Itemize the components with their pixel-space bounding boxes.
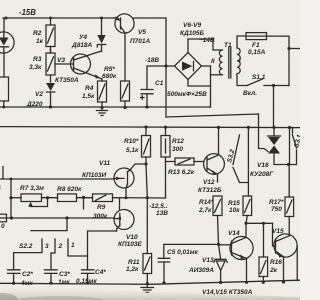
- svg-text:С3*: С3*: [59, 271, 70, 278]
- node R9 wire V11 source: [125, 196, 128, 199]
- svg-text:R2: R2: [33, 30, 42, 37]
- svg-text:V15: V15: [272, 228, 284, 235]
- wire V3 base tap: [55, 63, 73, 65]
- wire x11 column: [10, 179, 12, 218]
- svg-text:R3: R3: [33, 56, 42, 63]
- node left mid stub: [10, 178, 13, 181]
- svg-text:Т1: Т1: [224, 42, 232, 49]
- wire V10 gate stub: [119, 198, 121, 210]
- svg-text:0,15мк: 0,15мк: [76, 278, 97, 285]
- capacitor C1 500mkF x 25V: [141, 66, 167, 107]
- transformer T1: [211, 36, 248, 86]
- svg-text:С2*: С2*: [22, 271, 33, 278]
- ground bottom: [141, 284, 154, 293]
- svg-text:3,3к: 3,3к: [29, 64, 42, 71]
- resistor R2 1k: [46, 18, 55, 53]
- svg-text:R12: R12: [172, 138, 184, 145]
- transistor V15 KT350A: [273, 223, 298, 282]
- node V14 emitter bottom: [245, 281, 248, 284]
- bridge rectifier V6-V9 KD105B: [166, 39, 223, 80]
- switch S2.2 contact 2: [51, 239, 55, 270]
- svg-text:V14: V14: [228, 230, 240, 237]
- wire collector link bus y223: [246, 222, 273, 224]
- svg-text:R10*: R10*: [124, 138, 139, 145]
- switch S3.1 at right edge: [289, 128, 297, 165]
- svg-text:1,2к: 1,2к: [126, 266, 139, 273]
- node R7 left: [9, 196, 12, 199]
- svg-text:-15В: -15В: [19, 8, 36, 17]
- node V2 to bus2: [49, 105, 52, 108]
- capacitor C5 0,01mk: [158, 258, 169, 283]
- node R10 bottom junction: [144, 162, 147, 165]
- node bus1 left: [5, 17, 8, 20]
- resistor R14* 2,7k: [213, 196, 222, 259]
- svg-text:АИ309А: АИ309А: [188, 267, 214, 274]
- svg-text:V12: V12: [203, 179, 215, 186]
- svg-text:S1.1: S1.1: [252, 74, 266, 81]
- node R7 wiper join: [46, 196, 49, 199]
- wire bridge bottom lead: [188, 80, 211, 87]
- svg-text:R14*: R14*: [199, 199, 214, 206]
- node bus3 R12: [164, 126, 167, 129]
- transistor V5 P701A: [115, 14, 134, 33]
- svg-text:0: 0: [1, 223, 5, 230]
- node C5 bottom: [162, 281, 165, 284]
- fuse F1 0,15A: [246, 33, 289, 86]
- svg-text:R4: R4: [85, 85, 94, 92]
- node C4 bottom: [86, 281, 89, 284]
- node V15 emitter bottom: [282, 280, 285, 283]
- svg-text:V5: V5: [138, 29, 146, 36]
- resistor R5* 680k: [121, 34, 130, 108]
- svg-text:V16: V16: [257, 162, 269, 169]
- node R16 bottom: [262, 281, 265, 284]
- wire R10 to V11 drain: [131, 164, 146, 169]
- resistor R16 2k: [259, 223, 268, 282]
- svg-text:V6-V9: V6-V9: [183, 22, 201, 29]
- svg-text:I: I: [239, 57, 241, 64]
- diode V1 in circle (clipped at left edge): [0, 18, 14, 77]
- svg-text:У4: У4: [79, 34, 87, 41]
- dark corner smudge bottom-left: [0, 293, 18, 300]
- node V14 base/V13 node: [217, 243, 220, 246]
- switch S1.1: [247, 79, 289, 86]
- switch S2.2 arm: [31, 218, 67, 231]
- svg-text:КУ208Г: КУ208Г: [250, 171, 274, 178]
- node R8/R9: [82, 196, 85, 199]
- component half-clipped on left edge of source bus: [0, 214, 7, 222]
- wire bridge output down column x210.5: [210, 66, 212, 107]
- node V13 bottom: [219, 281, 222, 284]
- svg-text:0,15А: 0,15А: [248, 49, 266, 56]
- wire left edge stub R6: [0, 167, 11, 180]
- svg-text:1мк: 1мк: [58, 279, 70, 286]
- resistor R7 3,3M trimmer: [11, 194, 58, 207]
- diode V2 D220: [46, 83, 55, 107]
- wire top bus right segment to rectifier rail: [134, 17, 167, 19]
- node x11 on source bus: [10, 216, 13, 219]
- tunnel diode V13 AI309A: [214, 259, 227, 282]
- svg-text:680к: 680к: [102, 73, 117, 80]
- capacitor C3* 1mk: [45, 270, 58, 283]
- wire rail elbow to thyristor gate: [166, 114, 268, 152]
- node bus3 right rail: [288, 126, 291, 129]
- transistor V3 KT350A: [71, 51, 103, 79]
- node bus3 S3.2: [247, 126, 250, 129]
- svg-text:КП103Е: КП103Е: [118, 241, 143, 248]
- zener V4 D818A: [97, 18, 105, 52]
- svg-text:750: 750: [271, 206, 282, 213]
- resistor R15 10k: [243, 196, 252, 223]
- resistor R11 1,2k: [143, 254, 152, 284]
- svg-text:1к: 1к: [36, 38, 44, 45]
- svg-text:КД105Б: КД105Б: [180, 30, 205, 37]
- svg-text:КП103И: КП103И: [82, 172, 107, 179]
- svg-text:R9: R9: [97, 204, 106, 211]
- resistor R13 6,2k: [175, 158, 204, 165]
- node bus1 V4 tap: [100, 17, 103, 20]
- FET V11 KP103I: [114, 168, 134, 198]
- svg-text:V3: V3: [57, 57, 65, 64]
- svg-text:R5*: R5*: [104, 66, 115, 73]
- node bus3 V12 collector: [217, 126, 220, 129]
- wire V11 gate line: [11, 178, 114, 180]
- node C1 bus2: [145, 105, 148, 108]
- node R16 top: [262, 222, 265, 225]
- resistor R1 (clipped at left edge): [0, 77, 9, 107]
- node R15/V14 collector: [244, 222, 247, 225]
- wire R12/R13 node probe: [166, 162, 176, 199]
- wire source bus S2.2: [0, 217, 114, 219]
- svg-text:R16: R16: [270, 259, 282, 266]
- svg-text:R13 6,2к: R13 6,2к: [168, 169, 195, 176]
- node R1 to bus2: [2, 106, 5, 109]
- svg-text:1: 1: [71, 242, 75, 249]
- svg-text:S2.2: S2.2: [19, 243, 33, 250]
- node rail C1 tap: [164, 64, 167, 67]
- FET V10 KP103E: [114, 210, 134, 232]
- svg-text:R17*: R17*: [269, 199, 284, 206]
- wire bottom bus: [0, 280, 300, 284]
- wire -18V bus2 horizontal: [0, 106, 211, 108]
- node R5 bus2: [123, 106, 126, 109]
- svg-text:2к: 2к: [269, 267, 278, 274]
- node S1.1 pivot: [272, 84, 275, 87]
- wire +18V rail vertical x166: [165, 18, 167, 117]
- resistor R12 300: [161, 127, 170, 161]
- svg-text:С1: С1: [155, 80, 164, 87]
- svg-text:-12,5..: -12,5..: [149, 203, 168, 210]
- svg-text:КТ350А: КТ350А: [55, 77, 79, 84]
- wire top bus -15V left segment: [3, 17, 115, 19]
- svg-text:R15: R15: [228, 200, 240, 207]
- resistor R8 620k: [58, 194, 93, 209]
- svg-text:2,7к: 2,7к: [198, 207, 212, 214]
- svg-text:10к: 10к: [229, 207, 240, 214]
- svg-text:V2: V2: [35, 91, 43, 98]
- node R11 bottom: [146, 282, 149, 285]
- svg-text:R8 620к: R8 620к: [57, 186, 82, 193]
- resistor R17* 750: [285, 197, 294, 236]
- resistor R4 1,5k: [98, 79, 107, 108]
- svg-text:R11: R11: [128, 259, 140, 266]
- svg-text:КТ312Б: КТ312Б: [198, 187, 222, 194]
- svg-text:5,1к: 5,1к: [126, 147, 139, 154]
- svg-text:R7 3,3м: R7 3,3м: [20, 185, 44, 192]
- node C3 bottom: [49, 282, 52, 285]
- svg-text:V13: V13: [202, 257, 214, 264]
- wire C5 loop: [164, 244, 219, 258]
- svg-text:Д818А: Д818А: [71, 42, 93, 49]
- svg-text:4мк: 4мк: [20, 280, 33, 287]
- svg-text:2: 2: [58, 243, 63, 250]
- resistor R10* 5,1k: [142, 127, 151, 164]
- resistor R9 300k: [93, 194, 166, 202]
- capacitor C2* 4mk: [8, 270, 21, 283]
- wire right rail: [288, 128, 290, 198]
- svg-text:-18В: -18В: [145, 57, 159, 64]
- svg-text:13В: 13В: [156, 210, 168, 217]
- node bus3 R10: [144, 125, 147, 128]
- node V16 cathode junction: [287, 163, 290, 166]
- ground under bus2: [97, 108, 108, 116]
- node V16 anode bus3: [272, 126, 275, 129]
- node mains right tap: [287, 47, 290, 50]
- svg-text:Вкл.: Вкл.: [243, 90, 257, 97]
- wire mid bus3 horizontal full width: [0, 127, 300, 128]
- wire source column x147: [146, 164, 147, 254]
- node S2.2 pivot: [65, 216, 68, 219]
- svg-text:С4*: С4*: [95, 269, 106, 276]
- svg-text:300к: 300к: [93, 213, 108, 220]
- thyristor V16 KU208G: [268, 127, 289, 164]
- svg-text:F1: F1: [252, 42, 260, 49]
- svg-text:~14В: ~14В: [199, 37, 215, 44]
- svg-text:Д220: Д220: [26, 101, 43, 108]
- switch S3.2: [233, 127, 248, 196]
- svg-text:3: 3: [45, 243, 49, 250]
- capacitor C4* 0,15mk: [82, 270, 95, 283]
- svg-text:С5 0,01мк: С5 0,01мк: [167, 249, 199, 256]
- svg-text:V11: V11: [99, 160, 110, 167]
- svg-text:1,5к: 1,5к: [82, 93, 95, 100]
- svg-text:П701А: П701А: [130, 38, 151, 45]
- transistor V14 KT350A: [219, 223, 254, 282]
- node C2 bottom: [12, 282, 15, 285]
- svg-text:V10: V10: [126, 234, 138, 241]
- wire thyristor anode column: [273, 86, 275, 128]
- wire mains stub to edge: [289, 48, 300, 50]
- node source line junction: [146, 196, 149, 199]
- transistor V12 KT312B: [204, 127, 225, 182]
- switch S2.2 contact 3: [14, 239, 42, 270]
- switch S2.2 contact 1: [68, 239, 88, 256]
- svg-text:300: 300: [172, 146, 183, 153]
- svg-text:II: II: [211, 58, 215, 65]
- svg-text:500мкФ×25В: 500мкФ×25В: [167, 91, 207, 98]
- node R4 bus2: [100, 106, 103, 109]
- resistor R3 3,3k: [46, 47, 55, 83]
- wire V10 drain to C4 column: [88, 231, 117, 270]
- node bus1 R2 tap: [49, 17, 52, 20]
